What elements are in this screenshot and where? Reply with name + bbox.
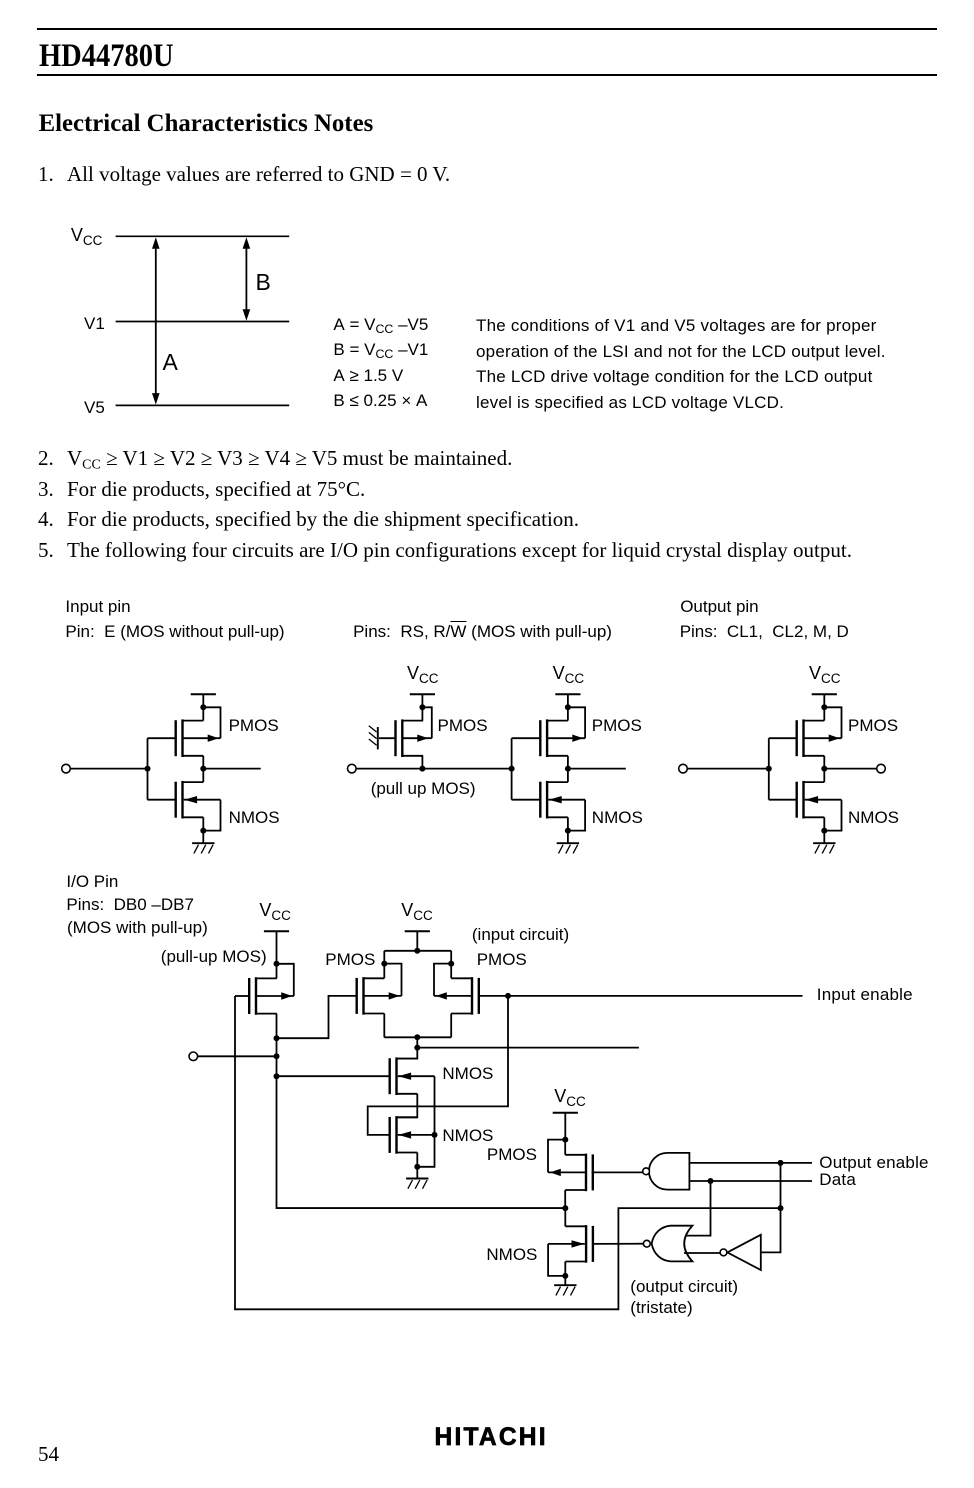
junction dot (input enable) bbox=[505, 993, 511, 999]
junction dot (right source) bbox=[448, 961, 454, 967]
wire PMOS drain to output node bbox=[567, 756, 569, 769]
junction dot (left source) bbox=[381, 961, 387, 967]
wire output stub bbox=[203, 768, 260, 770]
power VCC bar (pull-up) bbox=[264, 931, 289, 964]
wire output-enable rail (left/bottom) bbox=[235, 996, 781, 1309]
wire NMOS drain to output node bbox=[567, 769, 569, 783]
junction dot (output node) bbox=[200, 766, 206, 772]
wire gate stub bbox=[379, 737, 396, 739]
junction dot (OE / rail) bbox=[778, 1205, 784, 1211]
junction dot (output node) bbox=[562, 1205, 568, 1211]
junction dot (output node) bbox=[565, 766, 571, 772]
wire NMOS1 gate to pad bbox=[277, 1075, 390, 1077]
wire PMOS drain to output node bbox=[202, 756, 204, 769]
input terminal bbox=[679, 764, 688, 773]
junction dot (output node) bbox=[821, 766, 827, 772]
junction dot (source node) bbox=[200, 828, 206, 834]
NOR output bubble bbox=[643, 1240, 650, 1247]
junction dot (VCC node) bbox=[565, 704, 571, 710]
wire input-enable net down to NMOS2 gate bbox=[368, 996, 508, 1135]
junction dot (VCC node) bbox=[821, 704, 827, 710]
wire left PMOS drain down bbox=[383, 1014, 385, 1038]
wire output NMOS source down bbox=[564, 1262, 566, 1276]
junction dot (input enable tap) bbox=[414, 1045, 420, 1051]
transistor PMOS (output) symbol bbox=[548, 1154, 593, 1192]
input terminal (pin E) bbox=[62, 764, 71, 773]
power VCC bar (output circuit) bbox=[553, 1113, 578, 1140]
junction dot (gate net / input) bbox=[145, 766, 151, 772]
wire right PMOS gate to input-enable net bbox=[479, 995, 508, 997]
junction dot (bulk join) bbox=[432, 1132, 438, 1138]
wire NMOS bulk wrap to source node bbox=[568, 800, 585, 831]
wire NMOS gate bbox=[769, 799, 797, 801]
wire pull-up gate bbox=[235, 995, 249, 997]
wire line to next stage bbox=[356, 768, 512, 770]
wire data down to NOR input bbox=[685, 1181, 711, 1236]
wire right PMOS drain down bbox=[450, 1014, 452, 1038]
wire NMOS bulk wrap to source node bbox=[203, 800, 220, 831]
wire NMOS1 source down bbox=[397, 1094, 418, 1118]
wire NMOS1 bulk wrap down bbox=[417, 1076, 434, 1167]
ground bbox=[192, 831, 214, 854]
wire inverter to NOR input bbox=[684, 1252, 720, 1254]
wire PMOS bulk wrap to VCC node bbox=[824, 707, 841, 738]
wire left PMOS bulk wrap bbox=[384, 964, 401, 996]
transistor NMOS symbol bbox=[540, 781, 585, 819]
wire gate net vertical bbox=[511, 738, 513, 800]
transistor NMOS symbol bbox=[176, 781, 221, 819]
wire pull-up bulk wrap to VCC node bbox=[277, 964, 294, 996]
power VCC bar bbox=[191, 694, 216, 707]
wire PMOS gate bbox=[148, 737, 176, 739]
transistor PMOS pull-up symbol bbox=[249, 977, 294, 1015]
junction dot (pad/NMOS gate) bbox=[274, 1073, 280, 1079]
wire pull-up drain to pad net bbox=[277, 1014, 566, 1209]
wire PMOS drain to line bbox=[421, 756, 423, 769]
wire pad terminal bbox=[198, 1055, 277, 1057]
input terminal (pad DB) bbox=[189, 1052, 198, 1061]
wire PMOS source to VCC node bbox=[202, 707, 204, 720]
junction dot (pad/input terminal) bbox=[274, 1053, 280, 1059]
wire output NMOS bulk wrap bbox=[548, 1244, 565, 1276]
wire NMOS bulk wrap to source node bbox=[824, 800, 841, 831]
node VCC level line bbox=[116, 235, 290, 237]
transistor PMOS symbol bbox=[176, 719, 221, 757]
junction dot (line node) bbox=[419, 766, 425, 772]
junction dot (VCC node) bbox=[419, 704, 425, 710]
wire NAND input Output enable bbox=[689, 1162, 812, 1164]
junction dot (NMOS2 source) bbox=[414, 1164, 420, 1170]
junction dot (VCC node) bbox=[274, 961, 280, 967]
wire drain rail to NMOS1 drain bbox=[397, 1037, 418, 1058]
wire NMOS source down bbox=[823, 817, 825, 830]
power VCC bar bbox=[555, 694, 580, 707]
wire output to terminal bbox=[824, 768, 876, 770]
wire NOR output to output NMOS gate bbox=[592, 1243, 643, 1245]
junction dot (data) bbox=[708, 1178, 714, 1184]
junction dot (output enable) bbox=[778, 1160, 784, 1166]
NAND gate (output enable AND data) bbox=[649, 1153, 689, 1190]
wire input enable stub 2 bbox=[417, 1047, 639, 1049]
wire right PMOS bulk wrap bbox=[434, 964, 451, 996]
ground (input NMOS) bbox=[406, 1167, 428, 1189]
wire output PMOS bulk wrap bbox=[548, 1140, 565, 1173]
junction dot (VCC node) bbox=[414, 948, 420, 954]
wire PMOS bulk wrap to VCC node bbox=[422, 707, 431, 738]
wire NMOS source down bbox=[567, 817, 569, 830]
junction dot (gate net) bbox=[766, 766, 772, 772]
wire PMOS bulk wrap to VCC node bbox=[203, 707, 220, 738]
transistor NMOS (input 2) symbol bbox=[390, 1116, 435, 1154]
wire VCC rail bbox=[384, 950, 451, 952]
node V1 level line bbox=[116, 321, 290, 323]
wire output-enable down to inverter bbox=[761, 1163, 781, 1253]
wire NMOS drain to output node bbox=[823, 769, 825, 783]
inverter (output enable) bbox=[727, 1235, 761, 1270]
transistor NMOS symbol bbox=[797, 781, 842, 819]
wire output PMOS drain to output node bbox=[564, 1190, 566, 1208]
wire PMOS bulk wrap to VCC node bbox=[568, 707, 585, 738]
wire input enable stub bbox=[508, 995, 803, 997]
wire gate net vertical bbox=[147, 738, 149, 800]
transistor PMOS (input pair left) symbol bbox=[357, 977, 402, 1015]
wire output NMOS drain to output node bbox=[564, 1208, 566, 1226]
junction dot (source node) bbox=[821, 828, 827, 834]
power VCC bar (input circuit) bbox=[405, 931, 430, 951]
junction dot (source node) bbox=[565, 828, 571, 834]
wire input terminal to gate net bbox=[71, 768, 148, 770]
node V5 level line bbox=[116, 404, 290, 406]
output terminal bbox=[877, 764, 886, 773]
NAND output bubble bbox=[643, 1168, 650, 1175]
junction dot (VCC node) bbox=[562, 1137, 568, 1143]
junction dot (gate net) bbox=[509, 766, 515, 772]
wire input terminal to gate net bbox=[687, 768, 769, 770]
wire PMOS drain to output node bbox=[823, 756, 825, 769]
transistor PMOS pull-up symbol bbox=[396, 719, 432, 757]
wire NAND output to output PMOS gate bbox=[592, 1171, 643, 1173]
inverter output bubble bbox=[720, 1249, 727, 1256]
wire PMOS source to VCC node bbox=[567, 707, 569, 720]
wire NMOS gate bbox=[148, 799, 176, 801]
junction dot (pad/drain) bbox=[274, 1035, 280, 1041]
NOR gate (tristate pull-down control) bbox=[652, 1226, 693, 1262]
wire PMOS gate bbox=[512, 737, 541, 739]
wire NAND input Data bbox=[689, 1180, 812, 1182]
wire output stub bbox=[568, 768, 626, 770]
ground bbox=[813, 831, 835, 854]
junction dot (VCC node) bbox=[200, 704, 206, 710]
junction dot (output NMOS source) bbox=[562, 1273, 568, 1279]
wire pad to PMOS-pair gate bbox=[277, 996, 358, 1038]
transistor PMOS (input pair right) symbol bbox=[434, 977, 479, 1015]
dimension arrow B (VCC to V1) bbox=[243, 237, 251, 320]
wire NMOS gate bbox=[512, 799, 541, 801]
wire left PMOS source to rail bbox=[383, 951, 385, 979]
wire pull-up source to VCC node bbox=[276, 964, 278, 979]
wire PMOS gate bbox=[769, 737, 797, 739]
ground bbox=[557, 831, 579, 854]
transistor NMOS (input 1) symbol bbox=[390, 1057, 435, 1095]
dimension arrow A (VCC to V5) bbox=[152, 237, 160, 404]
transistor PMOS symbol bbox=[540, 719, 585, 757]
wire NMOS source down bbox=[202, 817, 204, 830]
wire right PMOS source to rail bbox=[450, 951, 452, 979]
wire PMOS source to VCC node bbox=[421, 707, 423, 720]
wire NMOS2 source down bbox=[416, 1153, 418, 1167]
input terminal bbox=[348, 764, 357, 773]
transistor NMOS (output) symbol bbox=[548, 1225, 593, 1263]
wire output node to pad net bbox=[277, 1207, 566, 1209]
wire gate net vertical bbox=[768, 738, 770, 800]
wire PMOS source to VCC node bbox=[823, 707, 825, 720]
wire NMOS drain to output node bbox=[202, 769, 204, 783]
substrate terminal bar (rotated ground) bbox=[369, 726, 378, 750]
power VCC bar bbox=[812, 694, 837, 707]
ground (output driver) bbox=[554, 1276, 576, 1296]
wire output PMOS source to VCC bbox=[564, 1140, 566, 1155]
junction dot (drain rail) bbox=[414, 1034, 420, 1040]
wire drain rail bbox=[384, 1036, 451, 1038]
power VCC bar bbox=[410, 694, 435, 707]
transistor PMOS symbol bbox=[797, 719, 842, 757]
